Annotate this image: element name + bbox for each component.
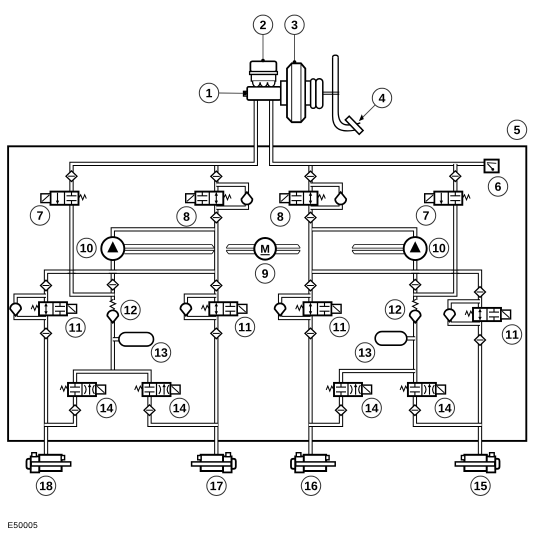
wire valve 11 #3 bypass loop: [280, 296, 310, 318]
node below left pump (filter): [107, 279, 118, 290]
wire left isolation/inlet column to wheel 17: [214, 164, 218, 455]
node below valve 8 right (filter): [305, 212, 316, 223]
node below valve 11 #1 (filter): [41, 328, 52, 339]
solenoid valve 14 #3 (outlet): [326, 383, 371, 396]
wire crossing repairs on mid runs: [68, 270, 460, 273]
wire valve 8 right bypass loop: [311, 185, 341, 208]
solenoid valve 7 left (shuttle): [41, 192, 86, 205]
node above valve 11 #3 (filter): [305, 280, 316, 291]
callout 11 #1: [66, 318, 85, 337]
node below valve 11 #4 (filter): [475, 335, 486, 346]
node above valve 11 #1 (filter): [41, 280, 52, 291]
wire right pump suction column upper: [413, 260, 417, 300]
wire right dump-valve feed tee: [341, 371, 415, 384]
callout 9 motor: [255, 264, 274, 283]
reservoir rim: [250, 72, 278, 75]
callout 6 pressure switch: [488, 177, 507, 196]
callout 11 #4: [502, 325, 521, 344]
check valve valve 8 left bypass: [241, 192, 252, 204]
callout 4 brake pedal: [372, 88, 391, 107]
motor item 9: [254, 238, 276, 260]
solenoid valve 14 #4 (outlet): [400, 383, 445, 396]
reservoir outlet scallops: [253, 81, 275, 87]
check valve valve 8 right bypass: [335, 192, 346, 204]
node below valve 8 left (filter): [211, 212, 222, 223]
node above valve 8 right (filter): [305, 171, 316, 182]
node below valve 11 #3 (filter): [305, 328, 316, 339]
wire valve 14 #3 outlet to wheel 16 line: [309, 396, 341, 425]
solenoid valve 8 left (isolation): [186, 192, 231, 205]
booster push rod: [323, 92, 340, 94]
callout 13 right: [355, 343, 374, 362]
damper spring right: [413, 299, 418, 310]
node below valve 14 #1 (filter): [70, 405, 81, 416]
callout 11 #3: [330, 317, 349, 336]
wire secondary circuit from master cylinder to pressure switch: [271, 96, 485, 164]
node below right pump (filter): [410, 279, 421, 290]
node above valve 7 right (filter): [450, 171, 461, 182]
callout 5 HCU: [507, 120, 526, 139]
callout 13 left: [151, 343, 170, 362]
pump right (item 10): [404, 237, 427, 260]
wire left pump suction column upper: [111, 260, 115, 300]
callout 1 master cylinder: [199, 83, 218, 102]
check valve valve 11 #2 bypass: [180, 303, 191, 315]
drive shaft motor left: [226, 245, 254, 254]
brake pedal pad: [345, 116, 363, 134]
solenoid valve 11 #3 (inlet): [296, 302, 341, 315]
callout 8 right: [271, 207, 290, 226]
solenoid valve 14 #1 (outlet): [60, 383, 105, 396]
node below valve 14 #2 (filter): [144, 405, 155, 416]
solenoid valve 11 #2 (inlet): [202, 302, 247, 315]
wire left mid run to wheel 18 column: [46, 272, 215, 455]
HCU box border: [8, 146, 526, 441]
drive shaft motor to right pump: [352, 245, 404, 254]
callout 10 right: [429, 238, 448, 257]
callout 14 #4: [435, 398, 454, 417]
wheel cylinder 18 (rear left): [27, 453, 71, 473]
accumulator right (item 13): [375, 332, 407, 346]
drive shaft left pump to motor: [124, 245, 214, 254]
callout 10 left: [77, 238, 96, 257]
wire right isolation/inlet column to wheel 16: [308, 164, 312, 455]
wheel cylinder 17: [192, 453, 236, 473]
callout 14 #2: [170, 398, 189, 417]
solenoid valve 8 right (isolation): [280, 192, 325, 205]
wire right accumulator stub: [407, 336, 416, 340]
reservoir body: [251, 75, 275, 82]
callout 18 wheel: [36, 476, 55, 495]
wire valve 11 #2 bypass loop: [186, 296, 216, 318]
wire valve 11 #1 bypass loop: [16, 296, 46, 318]
callout 3 booster: [285, 15, 304, 34]
check valve valve 11 #4 bypass: [444, 309, 455, 321]
callout 15 wheel: [471, 476, 490, 495]
brake pedal arm (item 4 target): [333, 55, 362, 131]
callout 2 reservoir cap: [253, 15, 272, 34]
wire valve 11 #4 bypass loop: [450, 301, 480, 323]
check valve valve 11 #1 bypass: [10, 303, 21, 315]
wire valve 14 #2 outlet to wheel 17 line: [150, 396, 218, 425]
wire valve 7 right column: [414, 164, 456, 295]
wire left accumulator stub: [113, 337, 120, 341]
check valve left accumulator inlet: [107, 310, 118, 322]
wire valve 8 left bypass loop: [216, 185, 247, 208]
reservoir cap (item 2 target): [250, 61, 276, 72]
callout 12 right: [385, 300, 404, 319]
figure number E50005: [8, 522, 37, 528]
wire right pump outlet: [312, 229, 415, 236]
solenoid valve 14 #2 (outlet): [135, 383, 180, 396]
node below valve 14 #4 (filter): [409, 405, 420, 416]
solenoid valve 7 right (shuttle): [425, 192, 470, 205]
callout 11 #2: [235, 317, 254, 336]
callout 16 wheel: [301, 476, 320, 495]
wire primary circuit from master cylinder via valve 7 left: [72, 96, 256, 295]
callout 7 left: [30, 206, 49, 225]
pump left (item 10): [101, 237, 124, 260]
callout 12 left: [121, 300, 140, 319]
leader line callout 4: [359, 105, 376, 121]
wheel cylinder 15: [455, 453, 499, 473]
callout 7 right: [416, 206, 435, 225]
brake booster (item 3 target): [281, 63, 306, 122]
solenoid valve 11 #4 (inlet): [465, 308, 510, 321]
callout 14 #1: [97, 398, 116, 417]
node above valve 11 #2 (filter): [211, 280, 222, 291]
node below valve 14 #3 (filter): [336, 405, 347, 416]
booster rings: [305, 79, 323, 109]
wire left dump-valve feed tee: [75, 372, 150, 384]
pressure switch (item 6): [485, 160, 499, 173]
wire left pump outlet: [113, 229, 215, 236]
check valve right accumulator inlet: [410, 310, 421, 322]
check valve valve 11 #3 bypass: [275, 303, 286, 315]
node below valve 11 #2 (filter): [211, 328, 222, 339]
wire valve 14 #4 outlet to wheel 15 line: [415, 396, 482, 425]
callout 8 left: [177, 207, 196, 226]
solenoid valve 11 #1 (inlet): [31, 302, 76, 315]
damper spring left: [110, 299, 115, 310]
callout 17 wheel: [207, 476, 226, 495]
leader line callout 1: [219, 92, 247, 96]
drive shaft motor right: [276, 245, 301, 254]
leader line callout 2: [261, 35, 265, 63]
wire left accumulator column lower: [111, 311, 115, 372]
node above valve 8 left (filter): [211, 171, 222, 182]
wheel cylinder 16: [291, 453, 335, 473]
wire right mid run to wheel 15 column: [312, 272, 480, 455]
master cylinder body (item 1 target): [244, 87, 281, 100]
node above valve 11 #4 (filter): [475, 287, 486, 298]
wire right accumulator column lower: [413, 311, 417, 384]
accumulator left (item 13): [119, 333, 154, 347]
node above valve 7 left (filter): [66, 171, 77, 182]
wire valve 14 #1 outlet to wheel 18 line: [44, 396, 75, 425]
leader line callout 3: [293, 35, 297, 64]
callout 14 #3: [362, 398, 381, 417]
